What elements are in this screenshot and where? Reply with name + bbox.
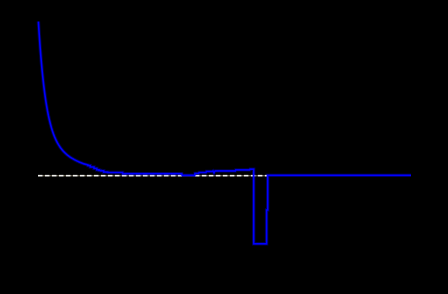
- dashed reference line, left run: [38, 175, 182, 177]
- signal trace (blue curve): [38, 22, 411, 244]
- signal trace glow: [38, 22, 411, 244]
- dashed reference line underlay (dim residue in gaps): [38, 175, 267, 177]
- dashed reference line, right run: [195, 175, 267, 177]
